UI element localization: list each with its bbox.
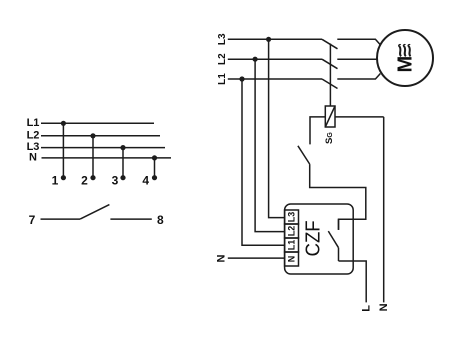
wire terminal 1 drop: [62, 123, 64, 177]
svg-text:L3: L3: [287, 212, 297, 223]
thermal sensor SG body: [325, 106, 335, 127]
contactor pole K1 (L3): [322, 39, 338, 49]
svg-text:L1: L1: [287, 240, 297, 251]
bus line N: [42, 157, 172, 159]
wire L1 to motor: [337, 74, 380, 80]
svg-text:3: 3: [112, 174, 119, 188]
svg-text:2: 2: [81, 174, 88, 188]
svg-text:L2: L2: [217, 53, 228, 65]
switch S7-8 left wire: [41, 218, 81, 220]
CZF terminal cell L2: [285, 224, 299, 238]
junction dot on L1: [61, 121, 66, 126]
bus line L2: [41, 135, 160, 137]
CZF terminal cell N: [285, 252, 299, 266]
bus line L3: [41, 147, 165, 149]
wire L2 to motor: [337, 58, 377, 60]
wire N to CZF: [228, 257, 285, 259]
wire L3 to motor: [337, 39, 380, 44]
svg-text:SG: SG: [324, 132, 335, 144]
svg-text:L1: L1: [217, 73, 228, 85]
svg-text:L1: L1: [27, 117, 40, 129]
contactor pole K2 (L2): [322, 59, 338, 68]
CZF internal relay contact upper stub: [338, 219, 340, 230]
switch S7-8 contact arm: [80, 205, 109, 220]
svg-text:CZF: CZF: [302, 220, 325, 256]
svg-text:N: N: [287, 256, 297, 263]
wire switch to CZF terminal 11: [310, 164, 366, 230]
junction dot L1 tap: [239, 76, 244, 81]
junction dot on N: [152, 155, 157, 160]
contactor linkage: [329, 44, 331, 107]
terminal 4 dot: [152, 175, 157, 180]
wire L2 tap to CZF: [255, 59, 285, 231]
switch S7-8 right wire: [110, 218, 151, 220]
contactor pole K3 (L1): [322, 79, 338, 89]
svg-text:7: 7: [29, 213, 36, 227]
terminal 1 dot: [61, 175, 66, 180]
svg-text:L3: L3: [217, 33, 228, 45]
wire SG right to N line: [335, 116, 384, 118]
junction dot on L2: [90, 133, 95, 138]
svg-text:4: 4: [142, 174, 149, 188]
CZF internal relay contact lower stub: [338, 248, 340, 261]
terminal 2 dot: [90, 175, 95, 180]
motor M1 circle: [377, 30, 433, 86]
svg-text:L: L: [360, 305, 372, 312]
svg-text:L2: L2: [27, 129, 40, 141]
svg-text:1: 1: [52, 174, 59, 188]
svg-text:N: N: [215, 255, 227, 263]
svg-text:L2: L2: [287, 226, 297, 237]
wire CZF output to L: [339, 261, 367, 302]
control switch contact arm: [298, 146, 310, 164]
CZF terminal cell L3: [285, 210, 299, 224]
terminal 3 dot: [120, 175, 125, 180]
phase line L2: [228, 58, 322, 60]
svg-text:N: N: [29, 152, 37, 164]
svg-text:N: N: [378, 303, 390, 311]
junction dot L2 tap: [253, 57, 258, 62]
CZF relay box: [285, 204, 354, 274]
svg-text:8: 8: [157, 213, 164, 227]
svg-text:M: M: [394, 56, 416, 73]
wire N drop right side: [383, 117, 385, 303]
junction dot L3 tap: [266, 37, 271, 42]
wire L3 tap to CZF: [269, 39, 285, 217]
junction dot on L3: [120, 145, 125, 150]
wire terminal 2 drop: [92, 136, 94, 178]
CZF internal relay contact arm: [328, 231, 338, 248]
wire terminal 4 drop: [154, 158, 156, 178]
phase line L3: [228, 38, 322, 40]
thermal sensor SG diagonal: [325, 106, 335, 127]
phase line L1: [228, 78, 322, 80]
motor M1 three-phase tildes: [399, 45, 401, 56]
wire L1 tap to CZF: [242, 79, 285, 245]
wire terminal 3 drop: [122, 148, 124, 178]
CZF terminal cell L1: [285, 238, 299, 252]
wire SG left to switch: [310, 117, 325, 144]
bus line L1: [41, 122, 154, 124]
